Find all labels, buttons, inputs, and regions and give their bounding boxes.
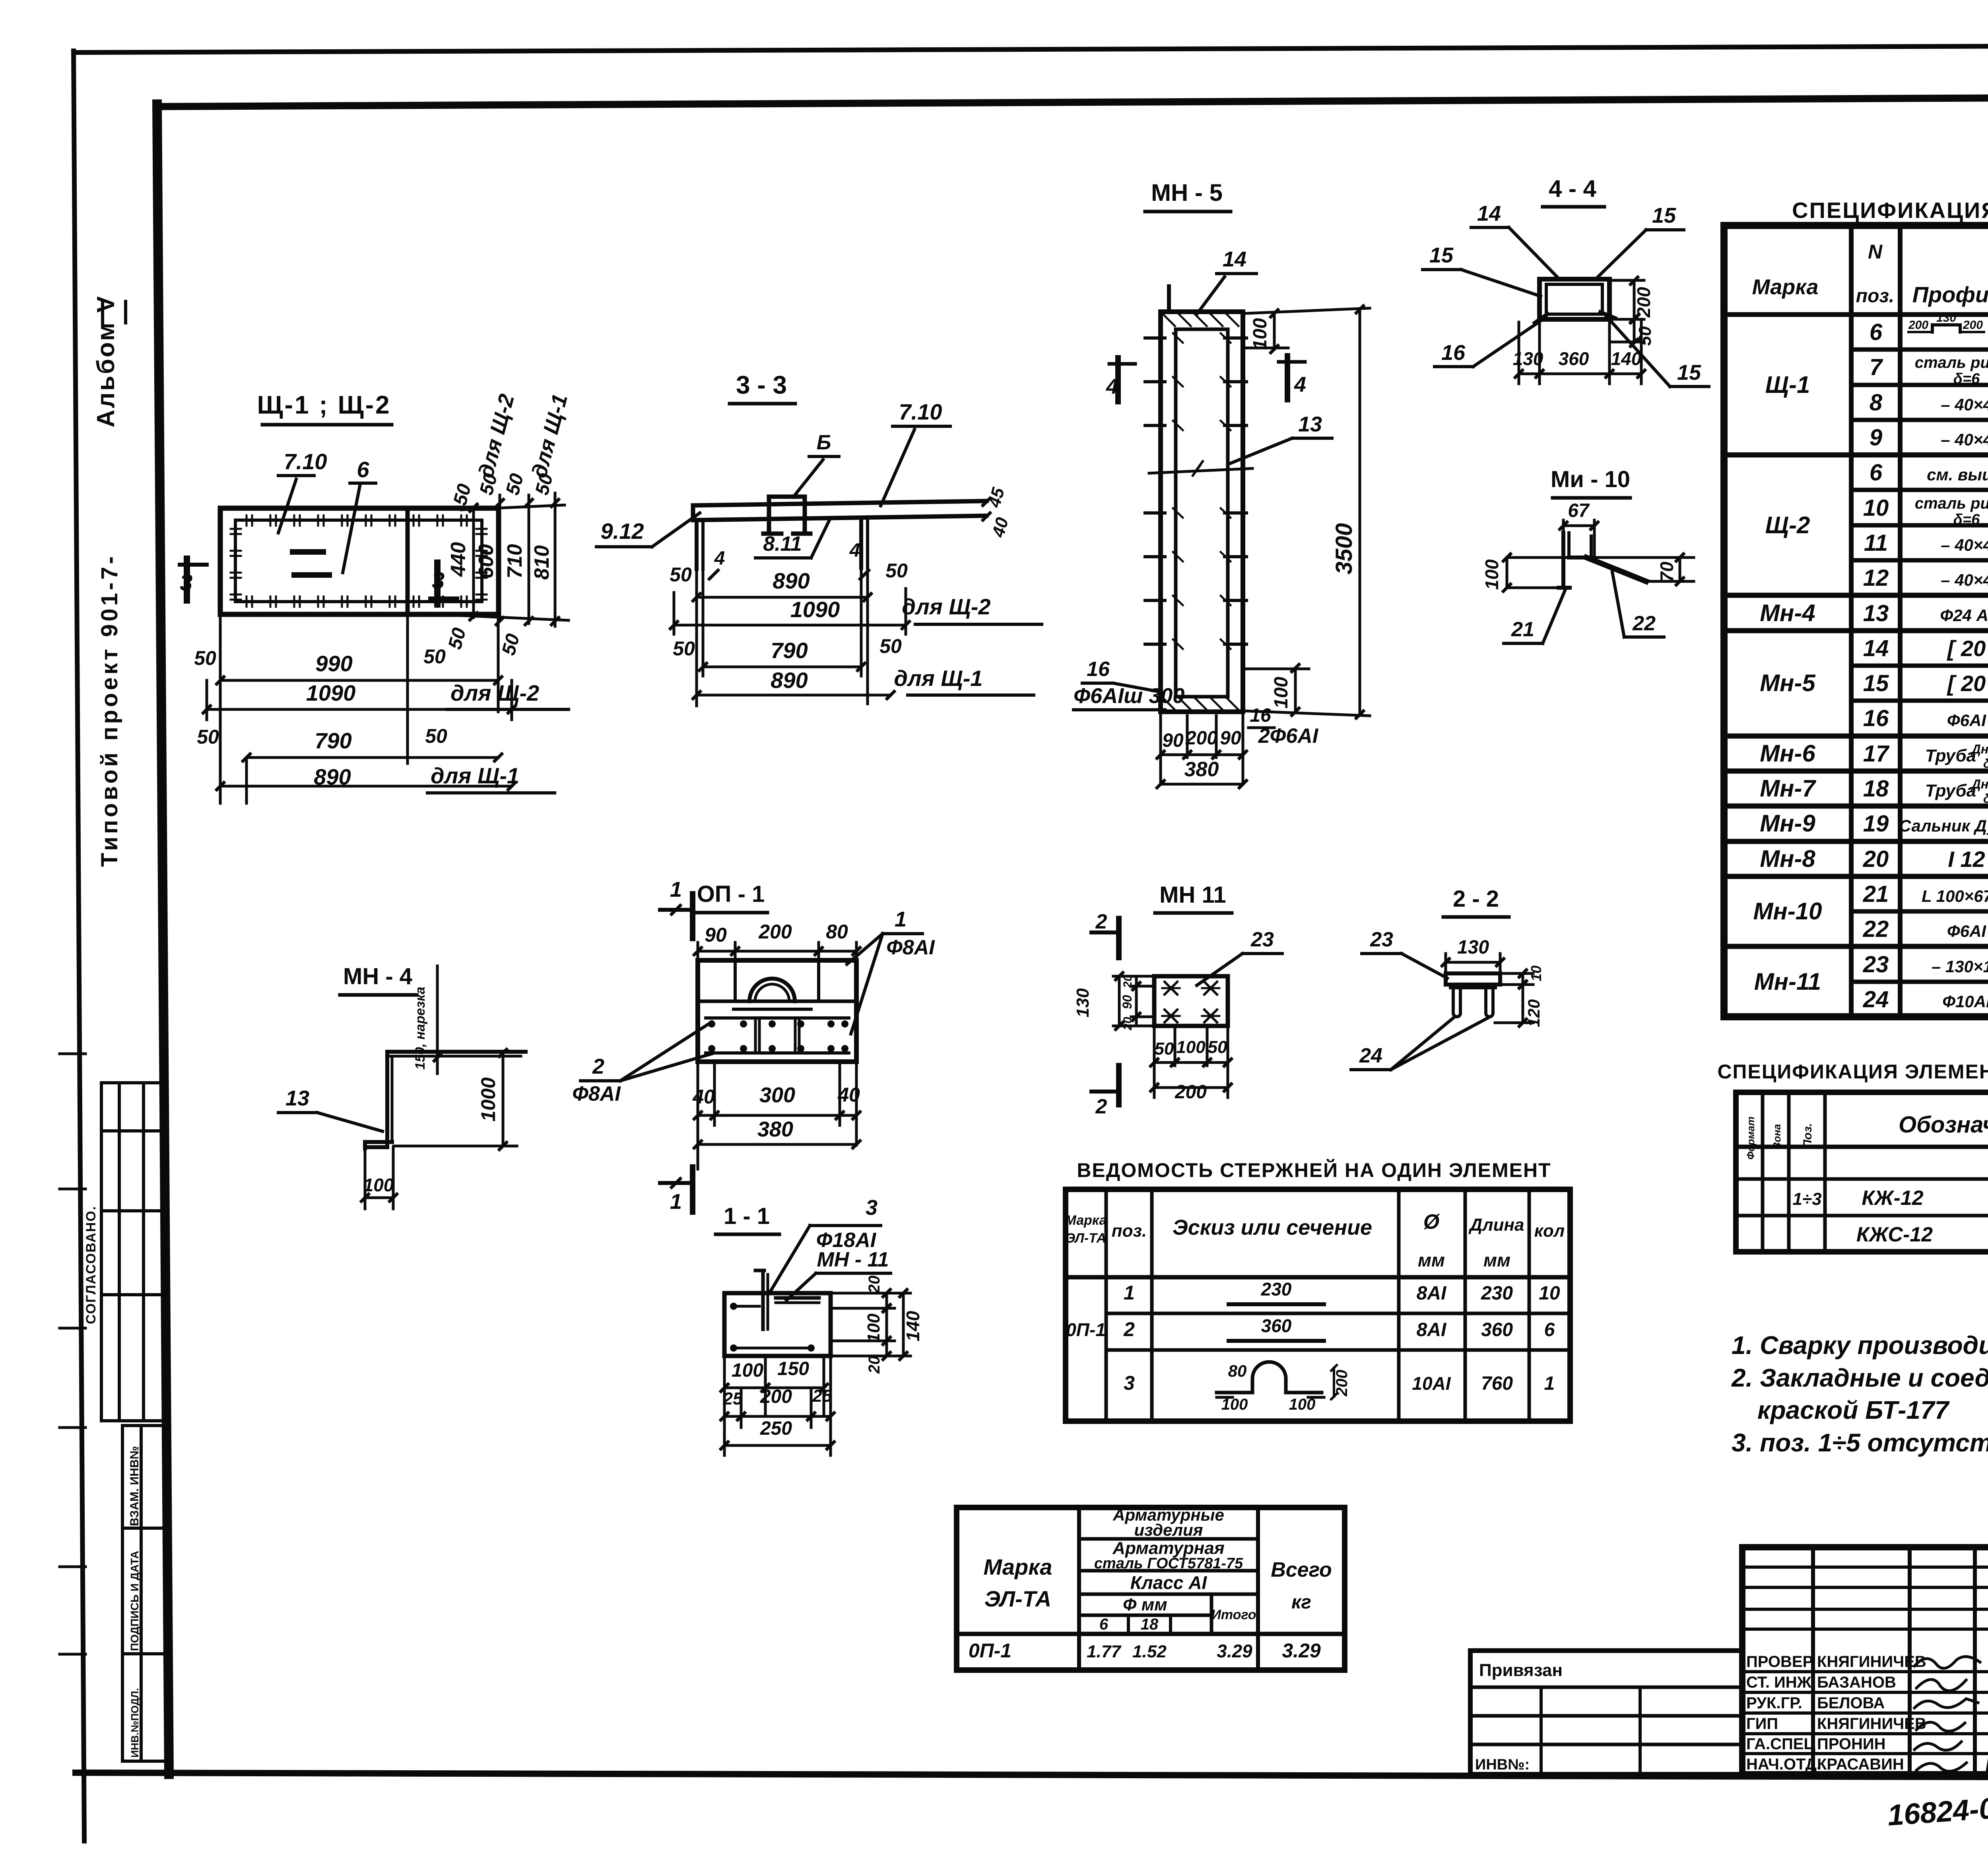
svg-text:100: 100 <box>1221 1396 1248 1413</box>
svg-text:9: 9 <box>1870 425 1882 451</box>
svg-text:сталь рифл.: сталь рифл. <box>1915 354 1988 371</box>
1-1 dims 25 200 25 <box>740 1388 743 1428</box>
MN-5 corner hatch bottom <box>1163 698 1175 710</box>
svg-text:360: 360 <box>1559 348 1589 369</box>
svg-text:10: 10 <box>1539 1283 1560 1304</box>
3-3 dimension chains <box>695 569 698 706</box>
svg-text:Мн-5: Мн-5 <box>1760 670 1816 696</box>
svg-text:200: 200 <box>758 921 792 943</box>
svg-text:3: 3 <box>180 570 192 596</box>
svg-text:Сальник Ду=200: Сальник Ду=200 <box>1899 816 1988 835</box>
margin stamp box INV.N PODL <box>122 1654 141 1761</box>
svg-text:6: 6 <box>1099 1616 1109 1633</box>
svg-text:Дн=108: Дн=108 <box>1971 742 1988 756</box>
OP-1 inner band verticals <box>734 960 737 1001</box>
svg-text:18: 18 <box>1863 776 1889 802</box>
svg-text:7.10: 7.10 <box>899 399 942 424</box>
svg-text:50: 50 <box>445 625 470 652</box>
svg-text:20: 20 <box>866 1276 883 1294</box>
svg-text:6: 6 <box>1870 460 1883 486</box>
svg-text:14: 14 <box>1223 247 1246 271</box>
svg-text:сталь рифл.: сталь рифл. <box>1915 495 1988 512</box>
svg-text:22: 22 <box>1863 916 1889 942</box>
svg-text:КЖС-12: КЖС-12 <box>1856 1223 1933 1246</box>
Sch sketch hatch marks <box>246 515 248 526</box>
svg-text:ИНВ.№ПОДЛ.: ИНВ.№ПОДЛ. <box>129 1688 141 1758</box>
svg-text:16: 16 <box>1087 658 1110 681</box>
svg-text:50: 50 <box>194 647 216 669</box>
svg-text:22: 22 <box>1632 612 1656 635</box>
svg-text:3. поз. 1÷5 отсутствуют: 3. поз. 1÷5 отсутствуют <box>1732 1428 1988 1457</box>
sheet bottom border <box>76 1773 1988 1778</box>
svg-text:3.29: 3.29 <box>1217 1641 1252 1661</box>
svg-text:4: 4 <box>1294 373 1306 396</box>
svg-text:ВЕДОМОСТЬ СТЕРЖНЕЙ НА ОДИН ЭЛЕ: ВЕДОМОСТЬ СТЕРЖНЕЙ НА ОДИН ЭЛЕМЕНТ <box>1077 1159 1551 1181</box>
svg-text:Ф24 АІ: Ф24 АІ <box>1940 606 1988 625</box>
svg-text:ЭЛ-ТА: ЭЛ-ТА <box>984 1586 1052 1611</box>
svg-text:СПЕЦИФИКАЦИЯ ЭЛЕМЕНТОВ МОНОЛИТ: СПЕЦИФИКАЦИЯ ЭЛЕМЕНТОВ МОНОЛИТНОЙ КОНСТР… <box>1717 1060 1988 1083</box>
svg-text:7: 7 <box>1870 354 1883 380</box>
svg-text:– 40×4: – 40×4 <box>1941 536 1988 554</box>
svg-text:200: 200 <box>1908 319 1928 332</box>
svg-text:МН - 11: МН - 11 <box>817 1248 889 1271</box>
vedomost header line <box>1066 1275 1570 1280</box>
svg-text:100: 100 <box>1289 1396 1316 1413</box>
svg-text:200: 200 <box>1175 1082 1207 1103</box>
svg-text:1: 1 <box>670 1190 682 1214</box>
svg-text:50: 50 <box>450 482 476 508</box>
svg-text:100: 100 <box>1176 1037 1206 1057</box>
svg-text:Класс АІ: Класс АІ <box>1130 1572 1208 1593</box>
svg-text:360: 360 <box>1261 1315 1292 1336</box>
svg-text:4: 4 <box>1106 375 1118 398</box>
svg-text:140: 140 <box>1611 348 1642 369</box>
margin stamp box PODPIS I DATA <box>122 1528 141 1654</box>
margin tick marks on outer border <box>60 1053 85 1055</box>
Sch sketch section mark 3 left <box>184 559 190 600</box>
Sch sketch bottom dimension chains <box>219 614 222 803</box>
svg-text:25: 25 <box>812 1386 832 1406</box>
svg-text:Труба: Труба <box>1925 781 1976 800</box>
OP-1 section mark 1 bottom <box>690 1167 695 1212</box>
svg-text:Типовой проект 901-7-: Типовой проект 901-7- <box>97 554 122 867</box>
svg-text:Мн-10: Мн-10 <box>1753 898 1822 925</box>
dim 790 line <box>247 756 498 759</box>
svg-text:Ф8АІ: Ф8АІ <box>572 1082 621 1105</box>
svg-text:Эскиз или сечение: Эскиз или сечение <box>1173 1216 1372 1239</box>
svg-text:ИНВ№:: ИНВ№: <box>1475 1756 1530 1773</box>
4-4 inner box <box>1546 284 1602 314</box>
armature table frame <box>957 1507 1345 1670</box>
1-1 plate <box>724 1293 831 1356</box>
svg-text:МН - 4: МН - 4 <box>343 963 412 989</box>
svg-text:15: 15 <box>1677 361 1701 385</box>
svg-text:600: 600 <box>475 544 498 579</box>
svg-text:3: 3 <box>432 568 445 594</box>
svg-text:БАЗАНОВ: БАЗАНОВ <box>1817 1674 1896 1691</box>
1-1 small rebar dots <box>730 1303 737 1310</box>
spec table column lines <box>1849 225 1854 1017</box>
OP-1 dim 380 <box>698 1143 856 1146</box>
svg-text:80: 80 <box>826 921 848 943</box>
svg-text:13: 13 <box>1298 412 1322 436</box>
monolith table frame <box>1736 1092 1988 1252</box>
svg-text:2Ф6АІ: 2Ф6АІ <box>1258 725 1319 748</box>
svg-text:Ø: Ø <box>1423 1210 1441 1233</box>
svg-text:10: 10 <box>1528 965 1544 981</box>
title block signature rows <box>1742 1670 1988 1673</box>
OP-1 stirrup verticals <box>754 1018 757 1053</box>
privyazan table <box>1470 1651 1742 1774</box>
svg-text:Щ-1: Щ-1 <box>1765 371 1810 398</box>
svg-text:760: 760 <box>1481 1373 1513 1394</box>
svg-text:790: 790 <box>771 638 808 663</box>
svg-text:7.10: 7.10 <box>284 449 327 474</box>
svg-text:ЭЛ-ТА: ЭЛ-ТА <box>1066 1231 1106 1246</box>
svg-text:4 - 4: 4 - 4 <box>1549 175 1597 202</box>
svg-text:2: 2 <box>1095 910 1107 933</box>
svg-text:200: 200 <box>1185 728 1217 749</box>
svg-text:50: 50 <box>498 631 524 658</box>
OP-1 arch <box>749 979 795 1001</box>
margin approval grid table <box>101 1081 165 1084</box>
svg-text:23: 23 <box>1370 928 1393 951</box>
vedomost row lines <box>1106 1312 1570 1315</box>
svg-text:11: 11 <box>1864 530 1888 556</box>
MN-11 left dim chain 130 and 20/90/20 <box>1113 975 1153 978</box>
svg-text:6: 6 <box>1544 1319 1555 1340</box>
svg-text:ПРОВЕР.: ПРОВЕР. <box>1746 1653 1815 1670</box>
svg-text:90: 90 <box>1220 728 1241 749</box>
1-1 dim 250 <box>724 1444 831 1447</box>
svg-text:2 - 2: 2 - 2 <box>1453 886 1499 912</box>
MN-5 break mark <box>1149 468 1252 473</box>
MN-5 dim 100 top <box>1273 313 1276 349</box>
svg-text:СПЕЦИФИКАЦИЯ СТАЛИ НА ОДНУ: СПЕЦИФИКАЦИЯ СТАЛИ НА ОДНУ МАРКУ <box>1792 198 1988 223</box>
MN-5 top bar pos14 <box>1167 286 1171 308</box>
svg-text:Марка: Марка <box>1752 275 1819 299</box>
svg-text:КРАСАВИН: КРАСАВИН <box>1817 1756 1904 1773</box>
svg-text:Альбом V: Альбом V <box>92 295 120 427</box>
4-4 right dim 200 <box>1612 279 1644 282</box>
svg-text:10: 10 <box>1863 495 1889 521</box>
svg-text:для Щ-1: для Щ-1 <box>431 763 519 788</box>
svg-text:21: 21 <box>1511 618 1534 641</box>
svg-text:1÷3: 1÷3 <box>1792 1189 1821 1209</box>
svg-text:120: 120 <box>1524 999 1543 1027</box>
OP-1 inner top band line <box>698 1000 856 1003</box>
svg-text:Марка: Марка <box>1065 1213 1107 1228</box>
svg-text:кг: кг <box>1291 1592 1311 1613</box>
3-3 right leg <box>859 519 863 568</box>
svg-text:Поз.: Поз. <box>1801 1123 1814 1148</box>
svg-text:24: 24 <box>1863 987 1889 1012</box>
svg-text:δ=4: δ=4 <box>1983 756 1988 771</box>
svg-text:Ф10АІ: Ф10АІ <box>1942 992 1988 1011</box>
svg-text:Мн-7: Мн-7 <box>1760 775 1816 802</box>
svg-text:Всего: Всего <box>1271 1558 1332 1581</box>
svg-text:N: N <box>1868 241 1883 263</box>
svg-text:19: 19 <box>1863 811 1889 837</box>
svg-text:Ф8АІ: Ф8АІ <box>886 936 935 959</box>
1-1 right dims 20 100 20 140 <box>831 1292 911 1295</box>
svg-text:23: 23 <box>1250 928 1274 951</box>
svg-text:КНЯГИНИЧЕВ: КНЯГИНИЧЕВ <box>1817 1653 1926 1670</box>
OP-1 rebar row top with dots <box>706 1016 849 1020</box>
svg-text:100: 100 <box>732 1360 763 1381</box>
svg-text:100: 100 <box>1481 559 1502 590</box>
3-3 bracket pos 6 <box>769 497 805 534</box>
svg-text:см. выше: см. выше <box>1927 465 1988 484</box>
svg-text:ПОДПИСЬ И ДАТА: ПОДПИСЬ И ДАТА <box>128 1551 141 1651</box>
MN-5 dim 100 bottom <box>1294 668 1297 712</box>
svg-text:Марка: Марка <box>984 1554 1052 1579</box>
svg-text:поз.: поз. <box>1856 286 1894 307</box>
MN-4 dim 100 <box>364 1148 367 1209</box>
4-4 outer box <box>1540 279 1609 319</box>
svg-text:ВЗАМ. ИНВ№: ВЗАМ. ИНВ№ <box>128 1446 141 1526</box>
svg-text:СОГЛАСОВАНО.: СОГЛАСОВАНО. <box>83 1206 99 1324</box>
1-1 bottom dims 100 150 <box>723 1356 726 1455</box>
svg-text:50: 50 <box>1635 326 1655 346</box>
svg-text:8.11: 8.11 <box>763 532 802 556</box>
svg-text:3500: 3500 <box>1331 523 1357 574</box>
svg-text:1000: 1000 <box>477 1077 499 1121</box>
sheet outer border left <box>74 51 84 1841</box>
spec table row lines <box>1851 348 1988 352</box>
svg-text:1: 1 <box>1544 1373 1555 1394</box>
2-2 right dim 10 and 120 <box>1501 972 1533 975</box>
MN-5 corner hatch top <box>1163 314 1175 326</box>
svg-text:24: 24 <box>1359 1044 1382 1067</box>
svg-text:9.12: 9.12 <box>601 519 644 544</box>
MN-11 plate <box>1154 976 1228 1026</box>
svg-text:ПРОНИН: ПРОНИН <box>1817 1735 1886 1753</box>
svg-text:50: 50 <box>1155 1039 1174 1059</box>
1-1 anchor bolt <box>761 1270 765 1329</box>
2-2 hook right <box>1486 988 1493 1017</box>
Mi-10 dim 67 <box>1563 524 1594 527</box>
MN-5 section marks 4-4 <box>1115 358 1121 402</box>
svg-text:140: 140 <box>903 1311 923 1341</box>
svg-text:СТ. ИНЖ.: СТ. ИНЖ. <box>1746 1674 1816 1691</box>
svg-text:Мн-4: Мн-4 <box>1760 600 1815 626</box>
OP-1 bottom dims 40 300 40 <box>697 1062 699 1169</box>
OP-1 rebar row bottom with dots <box>706 1051 849 1055</box>
svg-text:Привязан: Привязан <box>1479 1661 1563 1680</box>
svg-text:– 130×10: – 130×10 <box>1932 957 1988 976</box>
Sch sketch right vertical dimension chains <box>472 509 475 618</box>
svg-text:18: 18 <box>1141 1616 1159 1633</box>
svg-text:3: 3 <box>866 1196 878 1220</box>
svg-text:КНЯГИНИЧЕВ: КНЯГИНИЧЕВ <box>1817 1715 1926 1733</box>
2-2 hook left <box>1453 988 1460 1017</box>
svg-text:– 40×4: – 40×4 <box>1941 571 1988 589</box>
svg-text:для Щ-1: для Щ-1 <box>894 666 982 691</box>
svg-text:Мн-8: Мн-8 <box>1760 845 1815 872</box>
svg-text:кол: кол <box>1534 1221 1565 1241</box>
svg-text:КЖ-12: КЖ-12 <box>1862 1187 1923 1210</box>
Sch sketch section mark 3 right <box>434 563 441 604</box>
dim 1090 line <box>207 708 512 711</box>
OP-1 top dims 90 200 80 <box>697 942 699 960</box>
svg-text:Щ-2: Щ-2 <box>1765 512 1810 538</box>
svg-text:250: 250 <box>760 1418 792 1439</box>
svg-text:12: 12 <box>1863 565 1889 591</box>
svg-text:для Щ-2: для Щ-2 <box>450 680 539 705</box>
MN-11 weld X marks <box>1165 982 1177 995</box>
svg-text:1.77: 1.77 <box>1087 1642 1122 1661</box>
svg-text:810: 810 <box>530 545 553 580</box>
svg-text:Дн=325: Дн=325 <box>1971 777 1988 791</box>
svg-text:20: 20 <box>1121 975 1134 989</box>
svg-text:ГИП: ГИП <box>1746 1715 1778 1733</box>
svg-text:1: 1 <box>895 907 907 931</box>
MN-5 side tick bars <box>1145 336 1165 340</box>
svg-text:Ф6АІ: Ф6АІ <box>1947 922 1986 940</box>
svg-text:δ=8: δ=8 <box>1983 791 1988 806</box>
svg-text:І 12: І 12 <box>1948 847 1985 872</box>
svg-text:14: 14 <box>1477 202 1501 225</box>
OP-1 section mark 1 top <box>690 894 695 938</box>
svg-text:1. Сварку производить электрод: 1. Сварку производить электродами Э-42 п… <box>1732 1331 1988 1360</box>
MN-4 dim 1000 <box>398 1051 513 1052</box>
svg-text:Мн-6: Мн-6 <box>1760 740 1815 767</box>
svg-text:90: 90 <box>705 924 727 946</box>
svg-text:50: 50 <box>673 637 695 660</box>
svg-text:45: 45 <box>984 486 1008 510</box>
svg-text:20: 20 <box>1121 1017 1134 1031</box>
svg-text:230: 230 <box>1481 1283 1513 1304</box>
svg-text:40: 40 <box>837 1084 860 1106</box>
svg-text:8АІ: 8АІ <box>1417 1283 1447 1304</box>
svg-text:23: 23 <box>1863 952 1889 977</box>
svg-text:1: 1 <box>670 878 682 901</box>
svg-text:1: 1 <box>1124 1282 1135 1304</box>
svg-text:6: 6 <box>1870 319 1883 345</box>
OP-1 plate rectangle <box>698 960 856 1062</box>
svg-text:сталь ГОСТ5781-75: сталь ГОСТ5781-75 <box>1094 1555 1243 1572</box>
1-1 inner plate edge <box>776 1296 819 1300</box>
svg-text:200: 200 <box>1963 319 1983 332</box>
MN-5 outer frame <box>1161 312 1243 712</box>
svg-text:3.29: 3.29 <box>1282 1639 1321 1662</box>
svg-text:для Щ-1: для Щ-1 <box>527 392 573 480</box>
MN-11 bottom dims 50 100 50 <box>1153 1026 1156 1097</box>
monolith table column lines <box>1761 1092 1765 1252</box>
svg-text:14: 14 <box>1863 635 1889 661</box>
svg-text:20: 20 <box>866 1356 883 1374</box>
svg-text:2. Закладные и соединительные: 2. Закладные и соединительные детали окр… <box>1731 1364 1988 1392</box>
OP-1 arch baseline <box>734 1008 811 1011</box>
svg-text:150, нарезка: 150, нарезка <box>413 987 428 1070</box>
3-3 top bar <box>693 501 986 505</box>
svg-text:15: 15 <box>1652 204 1676 227</box>
svg-text:15: 15 <box>1863 670 1889 696</box>
svg-text:БЕЛОВА: БЕЛОВА <box>1817 1694 1885 1712</box>
svg-text:для Щ-2: для Щ-2 <box>474 392 519 480</box>
svg-text:200: 200 <box>760 1386 792 1407</box>
svg-text:300: 300 <box>759 1083 795 1107</box>
svg-text:25: 25 <box>723 1389 743 1408</box>
svg-text:1090: 1090 <box>790 597 840 622</box>
svg-text:80: 80 <box>1228 1362 1247 1380</box>
Sch sketch main rectangle <box>220 508 499 614</box>
svg-text:0П-1: 0П-1 <box>1066 1319 1106 1340</box>
svg-text:поз.: поз. <box>1112 1221 1147 1241</box>
svg-text:[ 20: [ 20 <box>1947 636 1986 661</box>
svg-text:100: 100 <box>1250 318 1271 350</box>
title block vertical lines <box>1811 1547 1815 1774</box>
svg-text:Б: Б <box>817 431 831 454</box>
title block outer frame <box>1742 1547 1988 1774</box>
svg-text:890: 890 <box>771 668 808 693</box>
monolith table row lines <box>1736 1177 1988 1181</box>
sheet outer border top <box>74 45 1988 52</box>
svg-text:21: 21 <box>1863 881 1889 907</box>
svg-text:890: 890 <box>314 764 351 789</box>
svg-text:50: 50 <box>425 725 447 747</box>
svg-text:4: 4 <box>714 548 725 569</box>
spec table outer frame <box>1724 225 1988 1017</box>
svg-text:для Щ-2: для Щ-2 <box>902 594 990 619</box>
4-4 bottom dim 130 360 140 <box>1518 322 1520 384</box>
svg-text:Труба: Труба <box>1925 746 1976 765</box>
MN-5 bottom dims 90 200 90 <box>1159 712 1162 781</box>
svg-text:50: 50 <box>670 563 692 586</box>
svg-text:МН 11: МН 11 <box>1159 882 1226 908</box>
svg-text:РУК.ГР.: РУК.ГР. <box>1746 1694 1802 1712</box>
svg-text:δ=6: δ=6 <box>1953 371 1980 387</box>
svg-text:1.52: 1.52 <box>1132 1642 1167 1661</box>
svg-text:50: 50 <box>197 726 219 748</box>
svg-text:ОП - 1: ОП - 1 <box>697 881 765 907</box>
vedomost column lines <box>1105 1189 1108 1421</box>
svg-text:Ми - 10: Ми - 10 <box>1551 466 1630 492</box>
armature table header rows <box>1079 1537 1258 1541</box>
svg-text:– 40×4: – 40×4 <box>1941 430 1988 449</box>
svg-text:16: 16 <box>1441 341 1466 365</box>
svg-text:L 100×67×7: L 100×67×7 <box>1922 887 1988 905</box>
svg-text:380: 380 <box>1184 758 1219 781</box>
svg-text:2: 2 <box>1095 1095 1107 1118</box>
svg-text:360: 360 <box>1481 1319 1513 1340</box>
Mi-10 profile shape <box>1561 533 1565 588</box>
svg-text:13: 13 <box>285 1086 309 1110</box>
MN-11 dim 200 <box>1154 1086 1228 1089</box>
sheet inner frame left (thick) <box>157 104 169 1774</box>
svg-text:50: 50 <box>1208 1037 1227 1057</box>
svg-text:990: 990 <box>315 651 352 676</box>
svg-text:Итого: Итого <box>1211 1607 1256 1622</box>
svg-text:100: 100 <box>864 1313 883 1343</box>
svg-text:2: 2 <box>1123 1318 1135 1340</box>
dim 890 line <box>220 785 512 788</box>
svg-text:Формат: Формат <box>1745 1117 1757 1160</box>
svg-text:Длина: Длина <box>1468 1215 1524 1235</box>
profile sketch pos6 bracket <box>1908 331 1932 333</box>
svg-text:380: 380 <box>757 1117 793 1141</box>
svg-text:67: 67 <box>1568 500 1590 521</box>
Mi-10 dim 70 right <box>1679 557 1681 581</box>
3-3 right end ticks and dims 45/40 <box>983 498 990 505</box>
svg-text:130: 130 <box>1513 348 1543 369</box>
svg-text:50: 50 <box>885 559 908 582</box>
svg-text:МН - 5: МН - 5 <box>1151 179 1223 206</box>
svg-text:130: 130 <box>1457 937 1489 958</box>
Sch sketch divider <box>406 508 410 614</box>
svg-text:3: 3 <box>1124 1372 1135 1394</box>
